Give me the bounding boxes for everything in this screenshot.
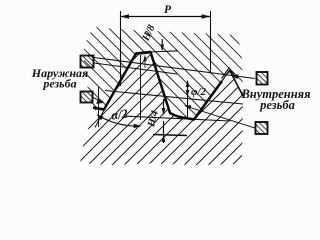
- svg-text:резьба: резьба: [259, 98, 295, 112]
- alpha/2 arc arrowhead left: [97, 115, 104, 121]
- construction line LA: from left square across to right square: [94, 58, 255, 79]
- construction line LB: [94, 63, 177, 74]
- thread profile outline (thick zigzag): [93, 52, 222, 120]
- lower H/4 reference line: [153, 135, 187, 136]
- phi/2 double-headed arrow: [187, 81, 189, 97]
- callout square: external thread, upper: [81, 56, 94, 68]
- callout square: internal thread, lower: [256, 122, 268, 134]
- flank extension below root: [95, 110, 104, 128]
- callout square: external thread, lower: [81, 92, 93, 103]
- hatched section: external thread (bolt), lower region: [80, 52, 243, 165]
- thin continuation to sharp apex: [222, 71, 229, 82]
- crest line extension: [151, 51, 179, 52]
- vertical reference x=98: [98, 87, 100, 127]
- alpha/2 angle arc: [98, 116, 140, 127]
- dimension line P (pitch): [120, 16, 211, 18]
- H/4 dimension lower arrow: [163, 121, 165, 143]
- H/8 dimension arrow: [161, 39, 163, 50]
- crest flat emphasized: [136, 52, 151, 54]
- right peak descent: [230, 70, 244, 96]
- arrow on LA toward right peak: [231, 74, 239, 78]
- pitch line LP: [105, 91, 243, 105]
- svg-text:P: P: [164, 4, 172, 16]
- svg-text:α/2: α/2: [110, 106, 128, 122]
- small up arrow under crest: [143, 55, 146, 62]
- alpha/2 arc arrowhead right: [134, 124, 142, 129]
- leader: lower-left square to flank: [93, 98, 103, 103]
- arrowhead P left: [120, 14, 129, 18]
- hatched section: internal thread (nut), upper region: [84, 27, 243, 120]
- vertical axis line x=140: [140, 55, 142, 120]
- callout square: internal thread, upper: [257, 72, 268, 85]
- arrowhead P right: [202, 14, 211, 18]
- svg-text:φ/2: φ/2: [191, 86, 206, 98]
- extension line left: [120, 11, 122, 86]
- extension line right: [210, 11, 212, 74]
- svg-text:резьба: резьба: [42, 77, 76, 91]
- right peak sharp tip thin lines: [222, 68, 237, 79]
- root line LD: [124, 116, 230, 121]
- H/4 dimension upper arrow: [163, 99, 165, 112]
- leader: lower-right square to root: [185, 106, 255, 128]
- vertical reference below phi/2: [187, 97, 189, 118]
